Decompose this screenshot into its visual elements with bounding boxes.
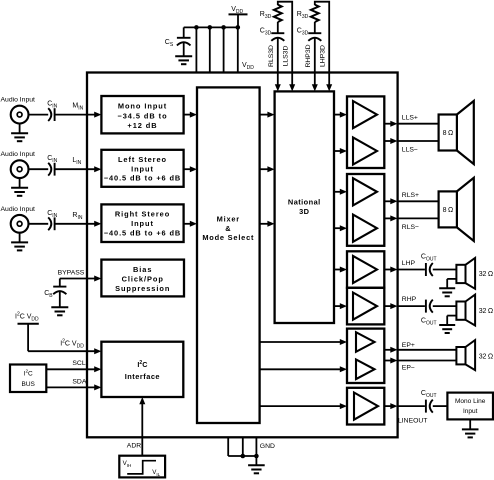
wire GND pin 2 — [242, 437, 244, 456]
svg-text:EP+: EP+ — [402, 342, 415, 349]
wire GND join — [228, 455, 256, 457]
svg-text:ADR: ADR — [127, 442, 141, 449]
svg-text:VIH: VIH — [123, 460, 132, 468]
audio input jack MIN — [11, 106, 29, 124]
ground (CB) — [51, 306, 68, 308]
wire pin LLS3D — [291, 4, 293, 85]
wire LINEOUT output — [384, 405, 391, 407]
svg-text:LIN: LIN — [72, 157, 81, 166]
wire LIN pin — [55, 168, 96, 170]
svg-text:RLS3D: RLS3D — [268, 45, 275, 67]
junction dot VDD bus 3 — [221, 25, 226, 30]
block Right Stereo Input — [101, 204, 183, 242]
svg-text:8 Ω: 8 Ω — [443, 130, 453, 137]
wire Right Stereo to Mixer — [184, 223, 191, 225]
wire COUT to headphone (RHP) — [433, 305, 457, 307]
wire RLS+ to speaker — [398, 200, 439, 202]
resistor R3D (RHP3D) — [311, 5, 319, 22]
svg-text:I2C: I2C — [24, 368, 33, 377]
svg-text:Click/Pop: Click/Pop — [122, 274, 164, 283]
wire GND to ground — [255, 456, 257, 465]
junction dot VDD bus 1 — [194, 25, 199, 30]
svg-text:I2C: I2C — [137, 360, 147, 369]
wire RHP output — [384, 305, 391, 307]
svg-text:MIN: MIN — [72, 103, 83, 112]
wire headphone ground branch (RHP) — [447, 315, 456, 317]
wire National 3D to RLS+ amp — [334, 191, 341, 193]
block National 3D — [275, 91, 334, 323]
ground (RHP speaker) — [439, 324, 455, 326]
speaker 8ohm (RLS) — [439, 191, 457, 227]
wire BYPASS pin — [60, 278, 95, 280]
wire LHP to COUT — [398, 269, 425, 271]
block I2C Interface — [101, 342, 183, 397]
svg-text:+12 dB: +12 dB — [127, 121, 157, 130]
svg-text:SDA: SDA — [72, 378, 86, 385]
svg-text:Audio Input: Audio Input — [1, 97, 36, 104]
amplifier block RLS (U2) — [347, 174, 384, 246]
capacitor CIN (RIN) — [48, 217, 51, 230]
power I2C VDD supply symbol — [18, 323, 39, 325]
wire jack to CIN (MIN) — [29, 114, 49, 116]
svg-text:Suppression: Suppression — [115, 284, 170, 293]
svg-text:BYPASS: BYPASS — [58, 270, 85, 277]
svg-text:Right Stereo: Right Stereo — [115, 210, 170, 219]
speaker 8ohm (LLS) — [439, 115, 457, 151]
wire Mixer to EP+ amp — [260, 341, 341, 343]
svg-text:−40.5 dB to +6 dB: −40.5 dB to +6 dB — [104, 229, 181, 238]
svg-text:VDD: VDD — [242, 62, 254, 71]
wire LLS+ output — [384, 123, 391, 125]
svg-text:I2C VDD: I2C VDD — [60, 339, 84, 350]
wire GND pin 1 — [227, 437, 229, 456]
svg-text:Input: Input — [131, 219, 154, 228]
ground (jack RIN) — [11, 241, 28, 243]
headphone speaker 32ohm (LHP) — [456, 265, 465, 283]
wire Mixer to National 3D (right) — [260, 223, 269, 225]
svg-text:Interface: Interface — [125, 372, 160, 381]
capacitor CIN (MIN) — [48, 108, 51, 121]
wire RLS- output — [384, 217, 391, 219]
wire pin RHP3D — [314, 38, 316, 85]
wire National 3D to LLS+ amp — [334, 114, 341, 116]
ground (LHP speaker) — [439, 287, 455, 289]
svg-text:R3D: R3D — [260, 11, 272, 20]
svg-text:32 Ω: 32 Ω — [479, 353, 493, 360]
capacitor CB — [59, 279, 61, 287]
svg-text:LINEOUT: LINEOUT — [398, 417, 427, 424]
wire jack to CIN (RIN) — [29, 223, 49, 225]
block I2C BUS — [10, 365, 46, 393]
amplifier block LLS (U1) — [347, 96, 384, 168]
junction dot VDD bus 4 — [236, 25, 241, 30]
wire RHP to COUT — [398, 305, 425, 307]
svg-text:Mixer: Mixer — [217, 214, 240, 223]
block Left Stereo Input — [101, 150, 183, 187]
wire jack to CIN (LIN) — [29, 168, 49, 170]
wire Mono Input to Mixer — [184, 114, 191, 116]
svg-text:R3D: R3D — [297, 11, 309, 20]
earpiece speaker 32ohm (EP) — [456, 347, 465, 364]
svg-text:COUT: COUT — [421, 254, 437, 263]
svg-text:RLS−: RLS− — [402, 224, 419, 231]
block Bias Click/Pop Suppression — [101, 260, 184, 297]
audio input jack RIN — [11, 215, 29, 233]
svg-text:32 Ω: 32 Ω — [479, 271, 493, 278]
capacitor C3D (RHP3D) — [314, 22, 316, 33]
headphone speaker 32ohm (RHP) — [456, 302, 465, 320]
wire EP- to speaker — [398, 360, 457, 362]
wire VDD pin 1 — [195, 27, 197, 72]
wire LHP output — [384, 269, 391, 271]
ground (CS) — [175, 55, 192, 57]
svg-text:C3D: C3D — [260, 27, 272, 36]
IC boundary box — [87, 73, 398, 438]
svg-text:Bias: Bias — [133, 265, 152, 274]
wire National 3D to RHP amp — [334, 305, 341, 307]
svg-text:RHP: RHP — [402, 296, 417, 303]
svg-text:LLS−: LLS− — [402, 146, 418, 153]
svg-text:SCL: SCL — [72, 360, 85, 367]
wire Mixer to EP- amp — [260, 368, 341, 370]
wire EP- output — [384, 360, 391, 362]
svg-text:LLS+: LLS+ — [402, 115, 418, 122]
wire RIN pin — [55, 223, 96, 225]
wire I2C VDD pin — [28, 350, 95, 352]
svg-text:GND: GND — [260, 443, 275, 450]
svg-text:COUT: COUT — [421, 317, 437, 326]
junction dot GND 1 — [241, 454, 246, 459]
svg-text:I2C VDD: I2C VDD — [15, 311, 39, 322]
wire bracket RHP3D/LHP3D — [315, 2, 329, 5]
wire VDD pin 2 — [209, 27, 211, 72]
ground (Mono Line Input) — [462, 428, 479, 430]
svg-text:32 Ω: 32 Ω — [479, 308, 493, 315]
wire SDA pin — [46, 386, 95, 388]
svg-text:LHP: LHP — [402, 260, 416, 267]
svg-text:EP−: EP− — [402, 365, 415, 372]
wire RLS+ output — [384, 200, 391, 202]
amplifier block EP (U5) — [347, 329, 384, 383]
capacitor CS — [183, 27, 185, 37]
wire Mixer to National 3D (mono) — [260, 114, 269, 116]
svg-text:−34.5 dB to: −34.5 dB to — [117, 111, 167, 120]
wire EP+ to speaker — [398, 349, 457, 351]
svg-text:Mono Line: Mono Line — [455, 398, 486, 405]
capacitor COUT (LHP) — [425, 263, 427, 276]
block logic level VIH/VIL — [119, 456, 165, 478]
svg-text:Audio Input: Audio Input — [1, 151, 36, 158]
wire VDD bus — [184, 26, 238, 28]
audio input jack LIN — [11, 160, 29, 178]
junction dot VDD bus 2 — [208, 25, 213, 30]
svg-text:3D: 3D — [299, 207, 310, 216]
svg-text:Audio Input: Audio Input — [1, 206, 36, 213]
svg-text:RHP3D: RHP3D — [305, 44, 312, 67]
svg-text:8 Ω: 8 Ω — [443, 207, 453, 214]
wire National 3D to RLS- amp — [334, 227, 341, 229]
resistor R3D (RLS3D) — [274, 5, 282, 22]
capacitor CIN (LIN) — [48, 163, 51, 176]
svg-text:LHP3D: LHP3D — [320, 45, 327, 67]
ground (jack MIN) — [11, 132, 28, 134]
svg-text:BUS: BUS — [22, 381, 36, 388]
svg-text:−40.5 dB to +6 dB: −40.5 dB to +6 dB — [104, 173, 181, 182]
capacitor COUT (LINEOUT) — [425, 400, 427, 413]
svg-text:VIL: VIL — [152, 469, 160, 477]
block Mixer and Mode Select — [197, 87, 260, 423]
block Mono Line Input — [447, 393, 493, 420]
wire ADR pin — [141, 403, 143, 456]
wire COUT to Mono Line Input — [433, 405, 448, 407]
capacitor C3D (RLS3D) — [277, 22, 279, 33]
wire MIN pin — [55, 114, 96, 116]
amplifier block RHP (U4) — [347, 288, 384, 325]
wire Left Stereo to Mixer — [184, 168, 191, 170]
svg-text:Input: Input — [131, 164, 154, 173]
block Mono Input — [101, 96, 183, 133]
svg-text:CS: CS — [165, 39, 174, 48]
amplifier block LHP (U3) — [347, 251, 384, 287]
svg-text:Left Stereo: Left Stereo — [118, 155, 167, 164]
wire Mixer to LINEOUT amp — [260, 405, 341, 407]
wire LLS- output — [384, 140, 391, 142]
junction dot GND 2 — [254, 454, 259, 459]
ground (GND) — [248, 464, 265, 466]
wire Mixer to National 3D (left) — [260, 168, 269, 170]
wire National 3D to LHP amp — [334, 269, 341, 271]
wire bracket RLS3D/LLS3D — [278, 2, 292, 5]
svg-text:Input: Input — [463, 408, 478, 415]
amplifier block LINEOUT (U6) — [347, 388, 384, 425]
wire GND pin 3 — [255, 437, 257, 456]
wire headphone ground branch (LHP) — [447, 278, 456, 280]
wire LINEOUT to COUT — [398, 405, 425, 407]
wire SCL pin — [46, 368, 95, 370]
svg-text:RIN: RIN — [72, 212, 82, 221]
wire RLS- to speaker — [398, 217, 439, 219]
wire VDD pin 3 — [223, 27, 225, 72]
svg-text:&: & — [225, 224, 231, 233]
wire EP+ output — [384, 349, 391, 351]
wire Mono Line Input to ground — [469, 419, 471, 429]
wire National 3D to LLS- amp — [334, 150, 341, 152]
wire VDD pin 4 — [237, 27, 239, 72]
wire pin RLS3D — [277, 38, 279, 85]
svg-text:C3D: C3D — [297, 27, 309, 36]
wire LLS- to speaker — [398, 140, 439, 142]
svg-text:CB: CB — [44, 290, 53, 299]
wire pin LHP3D — [328, 4, 330, 85]
power VDD supply symbol — [229, 13, 248, 15]
svg-text:National: National — [288, 198, 321, 207]
svg-text:RLS+: RLS+ — [402, 192, 419, 199]
capacitor COUT (RHP) — [425, 300, 427, 313]
svg-text:Mode Select: Mode Select — [202, 233, 254, 242]
wire COUT to headphone (LHP) — [433, 269, 457, 271]
svg-text:Mono Input: Mono Input — [118, 102, 167, 111]
ground (jack LIN) — [11, 187, 28, 189]
svg-text:COUT: COUT — [421, 390, 437, 399]
svg-text:LLS3D: LLS3D — [283, 46, 290, 67]
wire LLS+ to speaker — [398, 123, 439, 125]
